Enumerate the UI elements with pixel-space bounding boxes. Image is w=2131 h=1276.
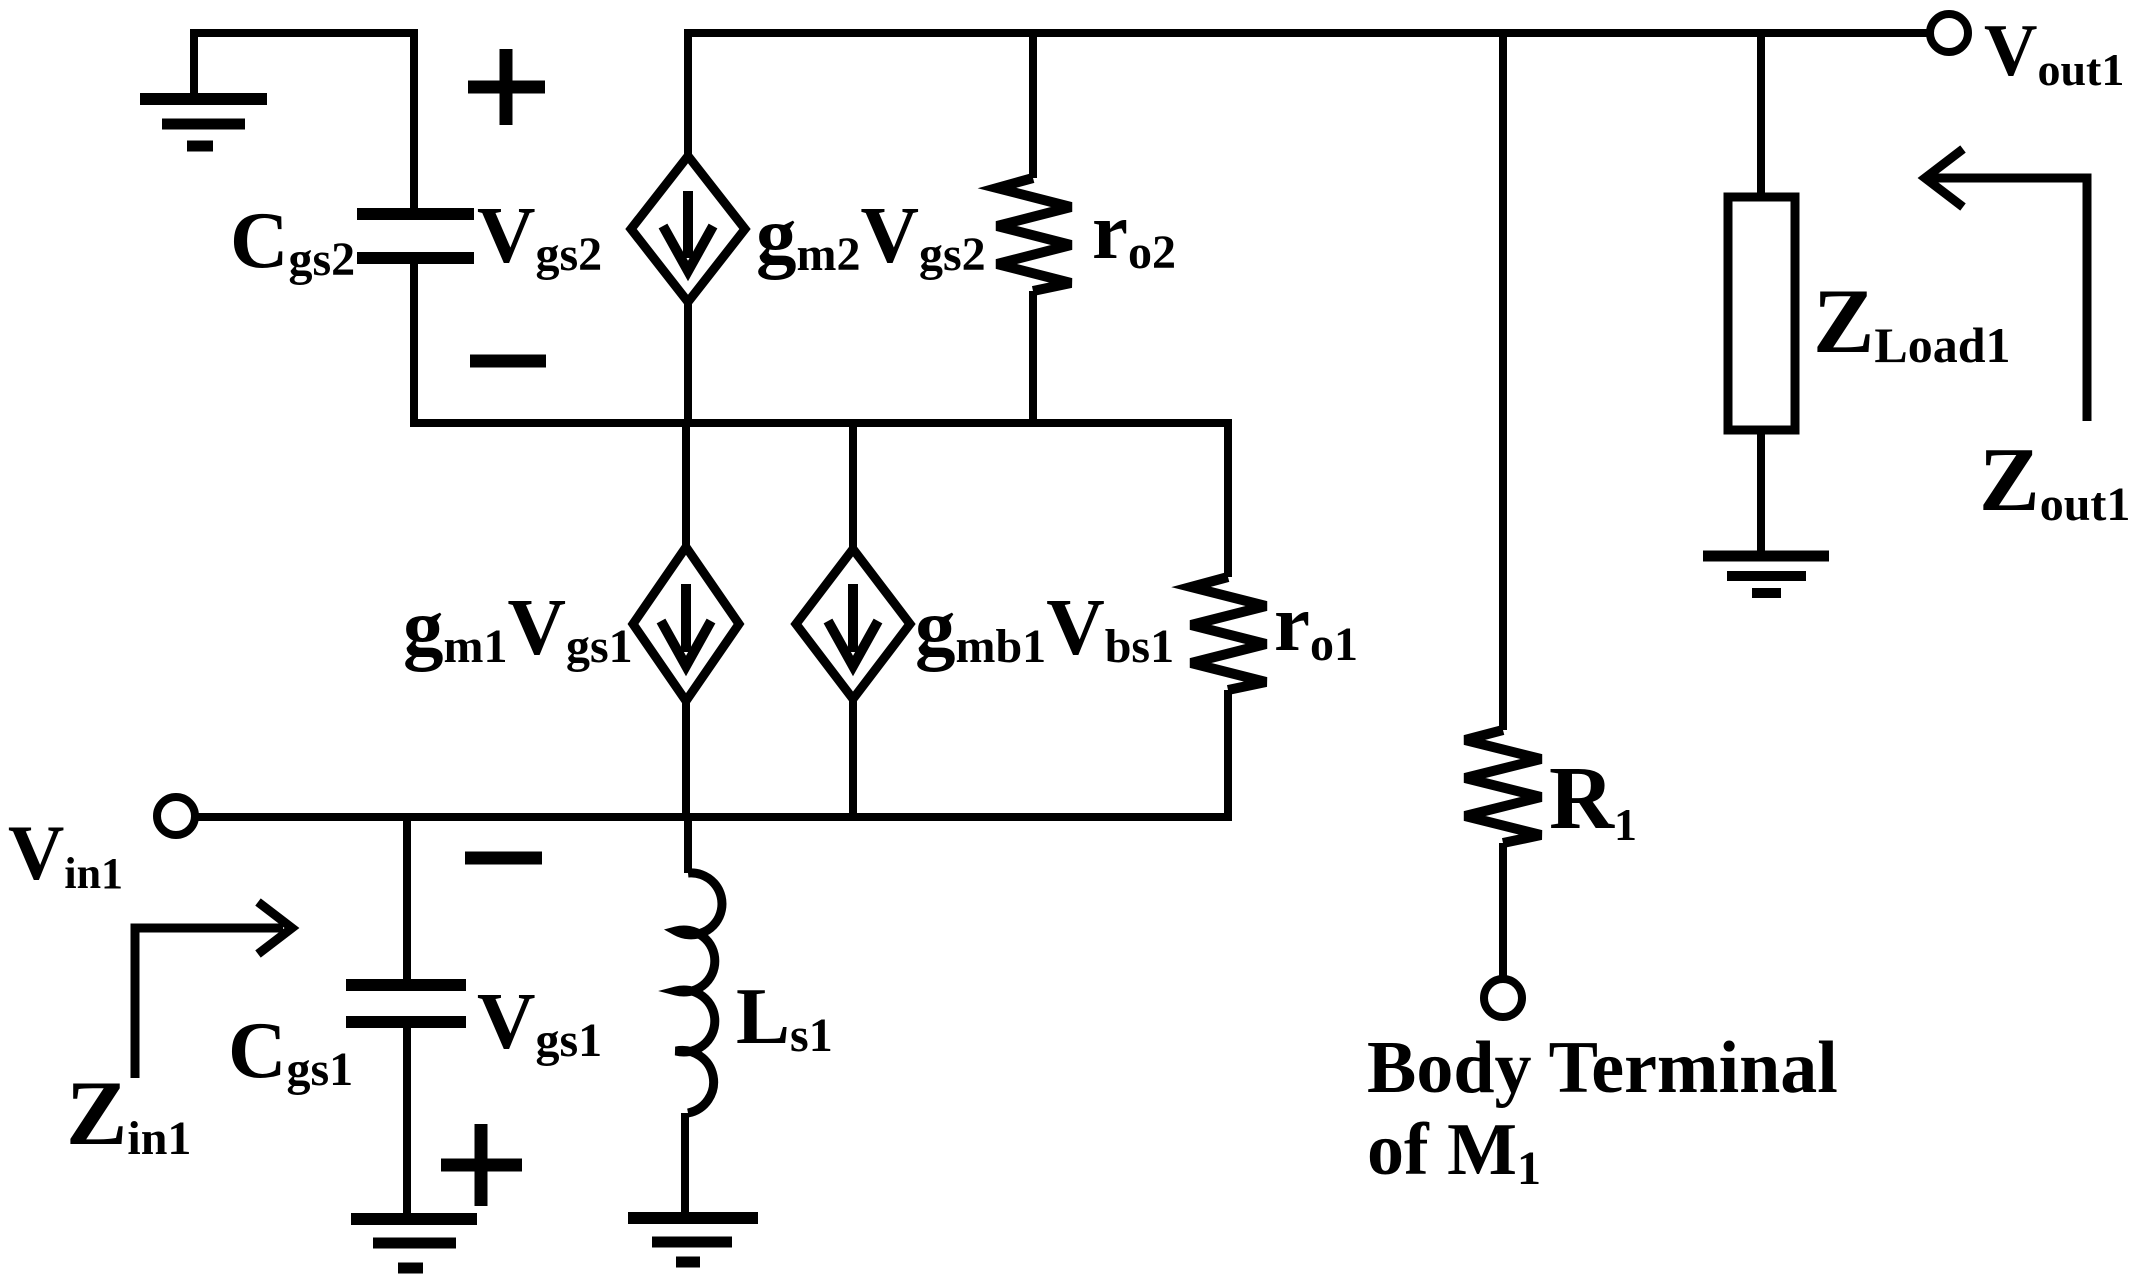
- terminal Vin1: [157, 797, 195, 835]
- minus sign (Vgs1 -): [465, 852, 542, 865]
- wire: Ls1 bottom: [681, 1113, 689, 1213]
- wire: gmb1 top: [849, 423, 857, 549]
- resistor ro1: [1191, 577, 1266, 690]
- terminal Body: [1484, 979, 1522, 1017]
- plus sign (Vgs1 +): [441, 1124, 522, 1206]
- wire: ro1 bottom: [1224, 690, 1232, 817]
- wire: Ls1 top: [684, 817, 692, 873]
- wire: R1 bottom: [1499, 843, 1507, 979]
- svg-text:Body Terminal: Body Terminal: [1367, 1027, 1838, 1109]
- wire: ro1 top: [1224, 423, 1232, 577]
- wire: ro2 bottom: [1029, 291, 1037, 423]
- inductor Ls1: [676, 873, 722, 1113]
- current source gm2Vgs2: [631, 156, 745, 302]
- wire: Cgs1 top: [403, 817, 411, 979]
- wire: gm2 top: [684, 29, 692, 156]
- wire: middle rail: [410, 419, 1232, 427]
- wire: R1 top (from top rail): [1499, 33, 1507, 730]
- wire: Cgs2 bottom to middle rail: [410, 264, 418, 423]
- wire: top rail: [688, 29, 1931, 37]
- wire: ZLoad1 top: [1757, 33, 1765, 197]
- resistor ro2: [997, 178, 1071, 291]
- wire: gm2 bottom: [684, 302, 692, 423]
- capacitor Cgs1: [346, 985, 466, 1022]
- terminal Vout1: [1930, 14, 1968, 52]
- resistor R1: [1465, 730, 1541, 843]
- plus sign (Vgs2 +): [468, 49, 545, 125]
- ground (under ZLoad1): [1703, 556, 1829, 593]
- capacitor Cgs2: [357, 214, 474, 258]
- wire: gm1 top: [682, 423, 690, 547]
- wire: top-left ground loop to Cgs2 top: [194, 33, 414, 208]
- svg-text:of M1: of M1: [1367, 1109, 1541, 1195]
- arrow Zin1: [135, 902, 292, 1078]
- minus sign (Vgs2 -): [470, 355, 546, 368]
- wire: gmb1 bottom: [849, 699, 857, 817]
- current source gmb1Vbs1: [796, 549, 910, 699]
- wire: lower rail: [196, 813, 1232, 821]
- arrow Zout1: [1925, 149, 2087, 421]
- ground (under Ls1): [628, 1218, 758, 1262]
- impedance ZLoad1: [1728, 197, 1795, 430]
- wire: gm1 bottom: [682, 701, 690, 817]
- wire: Cgs1 bottom: [403, 1028, 411, 1219]
- ground (top-left): [140, 99, 267, 146]
- ground (under Cgs1): [351, 1219, 477, 1268]
- current source gm1Vgs1: [633, 547, 739, 701]
- wire: ro2 top: [1029, 33, 1037, 178]
- wire: ZLoad1 bottom: [1757, 430, 1765, 551]
